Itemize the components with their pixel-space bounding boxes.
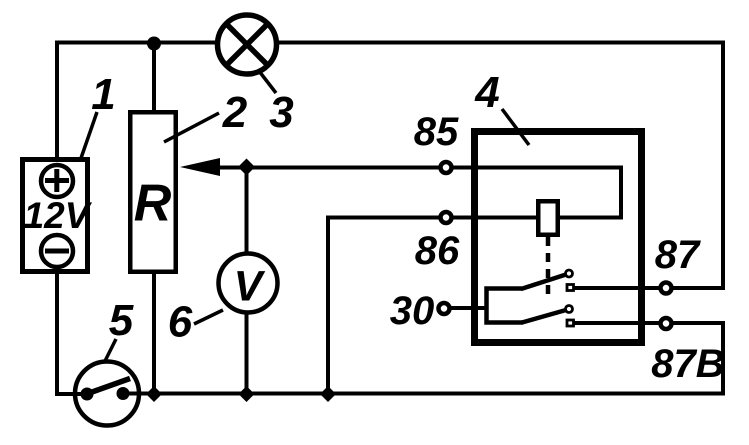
node junction bottom bus at resistor [146, 386, 162, 402]
wire coil left side through terminal 86 down to bottom bus [328, 218, 538, 394]
terminal 87B circle [661, 318, 672, 329]
svg-text:85: 85 [414, 110, 459, 154]
wiper arrow on resistor [180, 158, 220, 176]
movable arm upper tip circle [566, 270, 573, 277]
svg-text:4: 4 [474, 68, 499, 117]
voltmeter V (item 6) [219, 254, 278, 313]
switch left contact dot [81, 388, 94, 401]
svg-text:6: 6 [168, 298, 193, 347]
svg-text:R: R [134, 175, 172, 233]
relay coil [538, 201, 558, 235]
movable contact arm lower [522, 310, 566, 323]
wire resistor top to top bus [152, 43, 156, 115]
wire bottom bus from switch to right corner [120, 392, 725, 396]
leader line for 5 [105, 339, 116, 361]
wire battery bottom to lower-left corner and to switch [57, 272, 88, 394]
node junction bottom bus at voltmeter [239, 386, 255, 402]
contact bracket from terminal 30 [487, 289, 524, 323]
node junction on top bus at resistor branch [147, 37, 161, 51]
switch lever [85, 379, 130, 395]
relay actuator dashed link [546, 237, 551, 298]
svg-text:86: 86 [415, 229, 460, 273]
wire fixed contact 87 output to terminal 87 [574, 286, 660, 290]
movable contact arm upper [521, 275, 566, 290]
leader line for 2 [164, 113, 219, 142]
svg-text:3: 3 [269, 88, 293, 137]
lamp (item 3) [218, 15, 277, 74]
leader line for 4 [502, 109, 529, 145]
svg-text:30: 30 [390, 289, 435, 333]
wire resistor bottom to bottom bus [152, 271, 156, 394]
terminal 85 circle [441, 162, 452, 173]
svg-text:5: 5 [109, 296, 134, 345]
battery minus terminal [41, 235, 73, 267]
wire terminal 30 to contact bracket [444, 306, 488, 310]
terminal 87 circle [661, 283, 672, 294]
wire fixed contact 87B output through terminal to bottom bus [574, 323, 723, 394]
svg-text:87: 87 [655, 233, 701, 277]
fixed contact square 87 [567, 285, 574, 291]
wire left vertical battery top [55, 41, 59, 162]
battery 12V (item 1) [23, 160, 88, 272]
resistor R (item 2) [130, 112, 176, 272]
node junction bottom bus at 86 branch [320, 386, 336, 402]
battery plus terminal [41, 165, 73, 197]
svg-text:87B: 87B [651, 342, 724, 386]
switch (item 5) [75, 362, 139, 426]
svg-text:1: 1 [91, 70, 115, 119]
leader line for 1 [80, 112, 97, 161]
wire top bus from battery through lamp to right side, down to terminal 87 [57, 43, 723, 289]
movable arm lower tip circle [566, 306, 573, 313]
terminal 30 circle [439, 303, 450, 314]
node junction at wiper / voltmeter branch [238, 159, 255, 176]
fixed contact square 87B [567, 320, 574, 326]
relay box (item 4) [475, 132, 642, 343]
leader line for 3 [259, 71, 276, 93]
leader line for 6 [194, 310, 223, 324]
wire voltmeter branch from wiper node to bottom bus [245, 167, 249, 394]
switch right contact dot [117, 387, 130, 400]
terminal 86 circle [441, 212, 452, 223]
wire wiper to terminal 85 and relay inner wire to coil right side [216, 168, 621, 218]
svg-text:12V: 12V [24, 195, 93, 236]
svg-text:2: 2 [222, 88, 248, 137]
svg-text:V: V [234, 263, 266, 311]
